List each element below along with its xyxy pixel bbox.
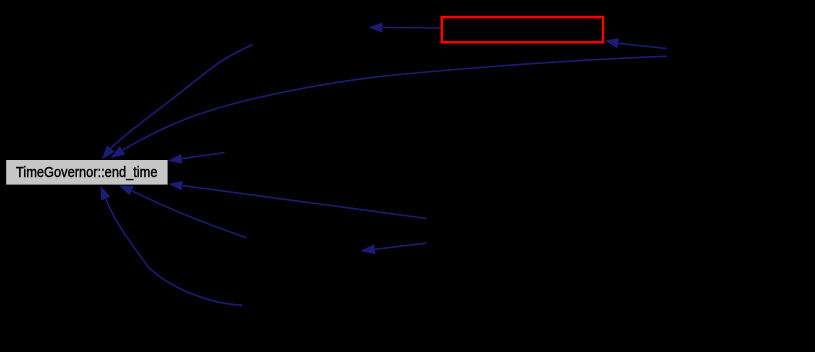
edge E7: hidden node E curving up to gray node bottom-left (100, 186, 242, 305)
edge E1: red node to hidden node A (horizontal arrow) (369, 23, 441, 33)
edge E9: hidden node D arrow into hidden node C (360, 243, 426, 254)
node truncated caller (red outline) (442, 17, 603, 42)
node TimeGovernor::end_time (current node, gray) (6, 160, 167, 185)
edge E4: hidden node G short arrow into gray node top-right corner (168, 153, 225, 164)
edge E3: hidden node F long shallow curve to gray node top (110, 56, 667, 158)
edge E8: hidden node F to red node (605, 38, 667, 48)
svg-text:TimeGovernor::end_time: TimeGovernor::end_time (16, 164, 158, 181)
edge E5: hidden node D long line into gray node bottom-right corner (168, 181, 427, 219)
edge E2: hidden node A curving down to gray node top-left (102, 45, 253, 160)
edge E6: hidden node C line into gray node bottom (119, 185, 247, 237)
